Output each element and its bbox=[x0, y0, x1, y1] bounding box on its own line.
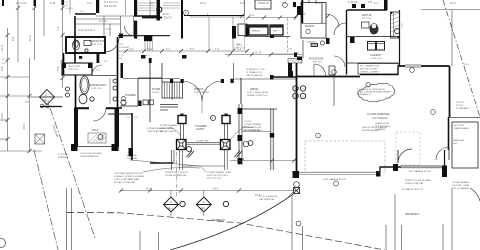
svg-text:5'-8: 5'-8 bbox=[240, 1, 245, 5]
svg-text:10'FT CLG: 10'FT CLG bbox=[91, 88, 102, 90]
svg-text:6'-1: 6'-1 bbox=[374, 1, 379, 5]
svg-text:14'FT. FLR&CLNG AT: 14'FT. FLR&CLNG AT bbox=[247, 91, 269, 94]
svg-text:1'-11: 1'-11 bbox=[119, 55, 124, 57]
svg-text:5'-6: 5'-6 bbox=[190, 48, 195, 51]
svg-text:CUBBIES: CUBBIES bbox=[306, 42, 316, 44]
svg-text:TYP @ GARAGE: TYP @ GARAGE bbox=[452, 187, 470, 190]
svg-text:SPECIFY SLOPE W/ GARS: SPECIFY SLOPE W/ GARS bbox=[405, 179, 432, 182]
svg-text:FILL CABINETS W/: FILL CABINETS W/ bbox=[360, 65, 380, 68]
svg-text:2ND FLR ABOVE: 2ND FLR ABOVE bbox=[246, 74, 263, 77]
svg-text:14'FT CEILING: 14'FT CEILING bbox=[372, 118, 388, 120]
svg-text:MUD ROOM: MUD ROOM bbox=[309, 58, 323, 61]
svg-text:OPT.: OPT. bbox=[119, 44, 124, 46]
svg-text:5'2x7'0: 5'2x7'0 bbox=[164, 17, 172, 20]
svg-text:SPRING POINT 16'0: SPRING POINT 16'0 bbox=[247, 95, 268, 97]
svg-text:1'-11: 1'-11 bbox=[63, 5, 68, 7]
svg-text:DRIVEWAY: DRIVEWAY bbox=[405, 212, 420, 216]
svg-text:SHOWN DASHED: SHOWN DASHED bbox=[362, 129, 380, 132]
svg-text:11'-10: 11'-10 bbox=[255, 52, 262, 55]
svg-text:STONE VENEER: STONE VENEER bbox=[160, 125, 178, 127]
svg-text:11 TREADS @ 11: 11 TREADS @ 11 bbox=[246, 71, 263, 74]
svg-text:W/H: W/H bbox=[453, 143, 458, 145]
svg-text:ENTRY: ENTRY bbox=[197, 128, 205, 131]
svg-text:AB-1: AB-1 bbox=[168, 208, 174, 211]
svg-text:6'-2: 6'-2 bbox=[166, 48, 171, 51]
svg-text:7'-4: 7'-4 bbox=[56, 26, 60, 31]
svg-text:22'-4: 22'-4 bbox=[0, 45, 4, 51]
svg-text:10'FT CLG: 10'FT CLG bbox=[68, 69, 78, 71]
svg-text:TANKLESS: TANKLESS bbox=[453, 139, 465, 142]
svg-text:BATH #5: BATH #5 bbox=[362, 14, 372, 17]
svg-text:4X4 POST W/ CONC: 4X4 POST W/ CONC bbox=[207, 175, 228, 177]
svg-text:UPPER + LOWER: UPPER + LOWER bbox=[360, 72, 378, 74]
svg-text:STONE VENEER FIN: STONE VENEER FIN bbox=[165, 175, 187, 177]
svg-text:STONE CAP: STONE CAP bbox=[196, 140, 209, 143]
svg-text:14'FT CEILING: 14'FT CEILING bbox=[194, 92, 209, 94]
svg-text:9'FT CLG: 9'FT CLG bbox=[362, 18, 371, 20]
svg-text:WATER PANEL: WATER PANEL bbox=[454, 127, 470, 130]
svg-text:VISUALLY OPEN W/ SCREEN: VISUALLY OPEN W/ SCREEN bbox=[114, 175, 144, 178]
svg-text:STONE VENEER OVER: STONE VENEER OVER bbox=[147, 128, 171, 130]
svg-text:PLANTER: PLANTER bbox=[58, 156, 69, 159]
svg-text:6'-0 1/2 4'-3: 6'-0 1/2 4'-3 bbox=[104, 0, 118, 4]
svg-text:1'-9 1/2: 1'-9 1/2 bbox=[244, 121, 252, 123]
svg-text:21'-3: 21'-3 bbox=[63, 2, 69, 4]
svg-text:CURB ANGL 7X: CURB ANGL 7X bbox=[357, 93, 372, 96]
svg-text:16'-8 1/2 X 13'-2: 16'-8 1/2 X 13'-2 bbox=[78, 30, 95, 32]
svg-text:CALIFORNIA PATIO: CALIFORNIA PATIO bbox=[243, 129, 263, 132]
svg-text:15'-0: 15'-0 bbox=[22, 123, 26, 129]
svg-text:ON CONC CURB: ON CONC CURB bbox=[452, 185, 470, 187]
svg-text:CURB STONE CAP: CURB STONE CAP bbox=[405, 182, 424, 185]
svg-text:POWDER: POWDER bbox=[125, 94, 136, 97]
svg-text:LOW COURTYARD WALL: LOW COURTYARD WALL bbox=[114, 178, 141, 181]
svg-text:12'-0: 12'-0 bbox=[0, 113, 4, 119]
svg-text:10'FT CLG: 10'FT CLG bbox=[91, 44, 102, 46]
svg-text:PORCH: PORCH bbox=[194, 88, 203, 91]
svg-text:LINE OF 2ND FLR ABOVE: LINE OF 2ND FLR ABOVE bbox=[362, 126, 388, 129]
svg-text:9'-6: 9'-6 bbox=[0, 66, 4, 71]
svg-text:STONE VENEER: STONE VENEER bbox=[452, 182, 470, 184]
svg-text:11'-0: 11'-0 bbox=[28, 35, 32, 41]
svg-text:16'FT GARAGE DOOR: 16'FT GARAGE DOOR bbox=[323, 178, 346, 181]
svg-text:2'-8 1/2: 2'-8 1/2 bbox=[456, 105, 464, 107]
svg-text:26'-0: 26'-0 bbox=[464, 64, 470, 66]
svg-text:2'-8: 2'-8 bbox=[368, 1, 373, 4]
svg-text:12'-4: 12'-4 bbox=[200, 1, 206, 5]
svg-text:14'0 ALUMAWOOD: 14'0 ALUMAWOOD bbox=[80, 155, 99, 158]
svg-text:4'-3 1/2: 4'-3 1/2 bbox=[66, 8, 74, 10]
svg-text:11'-2: 11'-2 bbox=[2, 59, 7, 61]
svg-text:9'FT CLG: 9'FT CLG bbox=[313, 62, 323, 64]
svg-text:OPTIONAL WINDOW DOOR: OPTIONAL WINDOW DOOR bbox=[114, 172, 143, 175]
svg-text:3'-0: 3'-0 bbox=[25, 101, 30, 104]
svg-text:CMU PILASTER: CMU PILASTER bbox=[147, 130, 164, 133]
svg-text:AB-1: AB-1 bbox=[200, 208, 206, 211]
svg-text:26'-0: 26'-0 bbox=[450, 1, 456, 5]
svg-text:3 CAR GARAGE: 3 CAR GARAGE bbox=[367, 112, 390, 116]
svg-text:STONE VENEER OVER: STONE VENEER OVER bbox=[207, 172, 231, 174]
svg-text:9'-11 1/2: 9'-11 1/2 bbox=[456, 102, 465, 104]
svg-text:POWDER: POWDER bbox=[119, 47, 129, 49]
svg-text:5'-0: 5'-0 bbox=[148, 48, 153, 51]
svg-text:LAUNDRY: LAUNDRY bbox=[370, 54, 382, 57]
svg-text:OUTDOOR KITCHEN: OUTDOOR KITCHEN bbox=[80, 153, 102, 155]
svg-text:8'-2: 8'-2 bbox=[11, 36, 15, 41]
svg-text:7'-4: 7'-4 bbox=[215, 48, 220, 51]
svg-text:HALL: HALL bbox=[236, 44, 243, 47]
svg-text:MASTER BATH: MASTER BATH bbox=[89, 84, 106, 87]
svg-text:9'FT GARAGE DOOR: 9'FT GARAGE DOOR bbox=[409, 170, 431, 173]
svg-text:NOTE 03: NOTE 03 bbox=[258, 1, 269, 5]
svg-text:BROOM CLOSET: BROOM CLOSET bbox=[360, 69, 378, 71]
svg-text:CAT 5/DRN.GH: CAT 5/DRN.GH bbox=[259, 198, 275, 201]
svg-text:3'-2: 3'-2 bbox=[87, 1, 92, 5]
svg-text:FTG TYP OF 2: FTG TYP OF 2 bbox=[207, 178, 222, 180]
svg-text:STONE VENEER: STONE VENEER bbox=[244, 124, 262, 126]
svg-text:10'FT CLG: 10'FT CLG bbox=[371, 58, 382, 60]
svg-text:4'-11 1/2: 4'-11 1/2 bbox=[348, 1, 358, 4]
svg-text:5'-0: 5'-0 bbox=[56, 66, 60, 71]
svg-text:PANTRY: PANTRY bbox=[305, 25, 315, 28]
svg-text:B.B.Q.: B.B.Q. bbox=[92, 129, 99, 132]
svg-text:5'PVC SLEEVE W/: 5'PVC SLEEVE W/ bbox=[259, 196, 278, 198]
svg-text:REF: REF bbox=[273, 31, 278, 33]
svg-text:MASTER BATH: MASTER BATH bbox=[89, 40, 106, 43]
svg-text:14'FT CLG: 14'FT CLG bbox=[234, 48, 245, 50]
svg-text:HIS CLOS.: HIS CLOS. bbox=[104, 4, 117, 8]
svg-text:COVERED: COVERED bbox=[243, 127, 254, 129]
svg-text:RANGE: RANGE bbox=[252, 30, 260, 33]
svg-text:SETBACK: SETBACK bbox=[212, 218, 225, 222]
svg-text:42'-0: 42'-0 bbox=[146, 188, 152, 191]
svg-text:HOT MOP: HOT MOP bbox=[454, 125, 465, 127]
svg-text:W/ CAP STONE CAP: W/ CAP STONE CAP bbox=[114, 181, 135, 184]
svg-text:SLAB'S PLUS: SLAB'S PLUS bbox=[375, 122, 389, 125]
svg-text:PL SETBACK: PL SETBACK bbox=[456, 107, 470, 110]
svg-text:1'-0 1/2: 1'-0 1/2 bbox=[99, 21, 107, 23]
svg-text:DINING: DINING bbox=[250, 88, 259, 91]
svg-text:4% MAX SLOPE TYP: 4% MAX SLOPE TYP bbox=[402, 188, 424, 191]
svg-text:HIS CLOSET: HIS CLOSET bbox=[68, 66, 81, 68]
svg-text:FOYER: FOYER bbox=[152, 88, 161, 91]
svg-text:3'-8: 3'-8 bbox=[129, 48, 134, 51]
svg-text:22'-4 1/2: 22'-4 1/2 bbox=[16, 1, 27, 5]
svg-text:14'CLG: 14'CLG bbox=[152, 92, 160, 94]
svg-text:24'-0: 24'-0 bbox=[213, 188, 219, 191]
svg-text:9'-11: 9'-11 bbox=[50, 1, 56, 5]
svg-text:16 RISERS @ 7 3/4: 16 RISERS @ 7 3/4 bbox=[246, 69, 265, 71]
svg-text:AB-1: AB-1 bbox=[43, 99, 49, 103]
